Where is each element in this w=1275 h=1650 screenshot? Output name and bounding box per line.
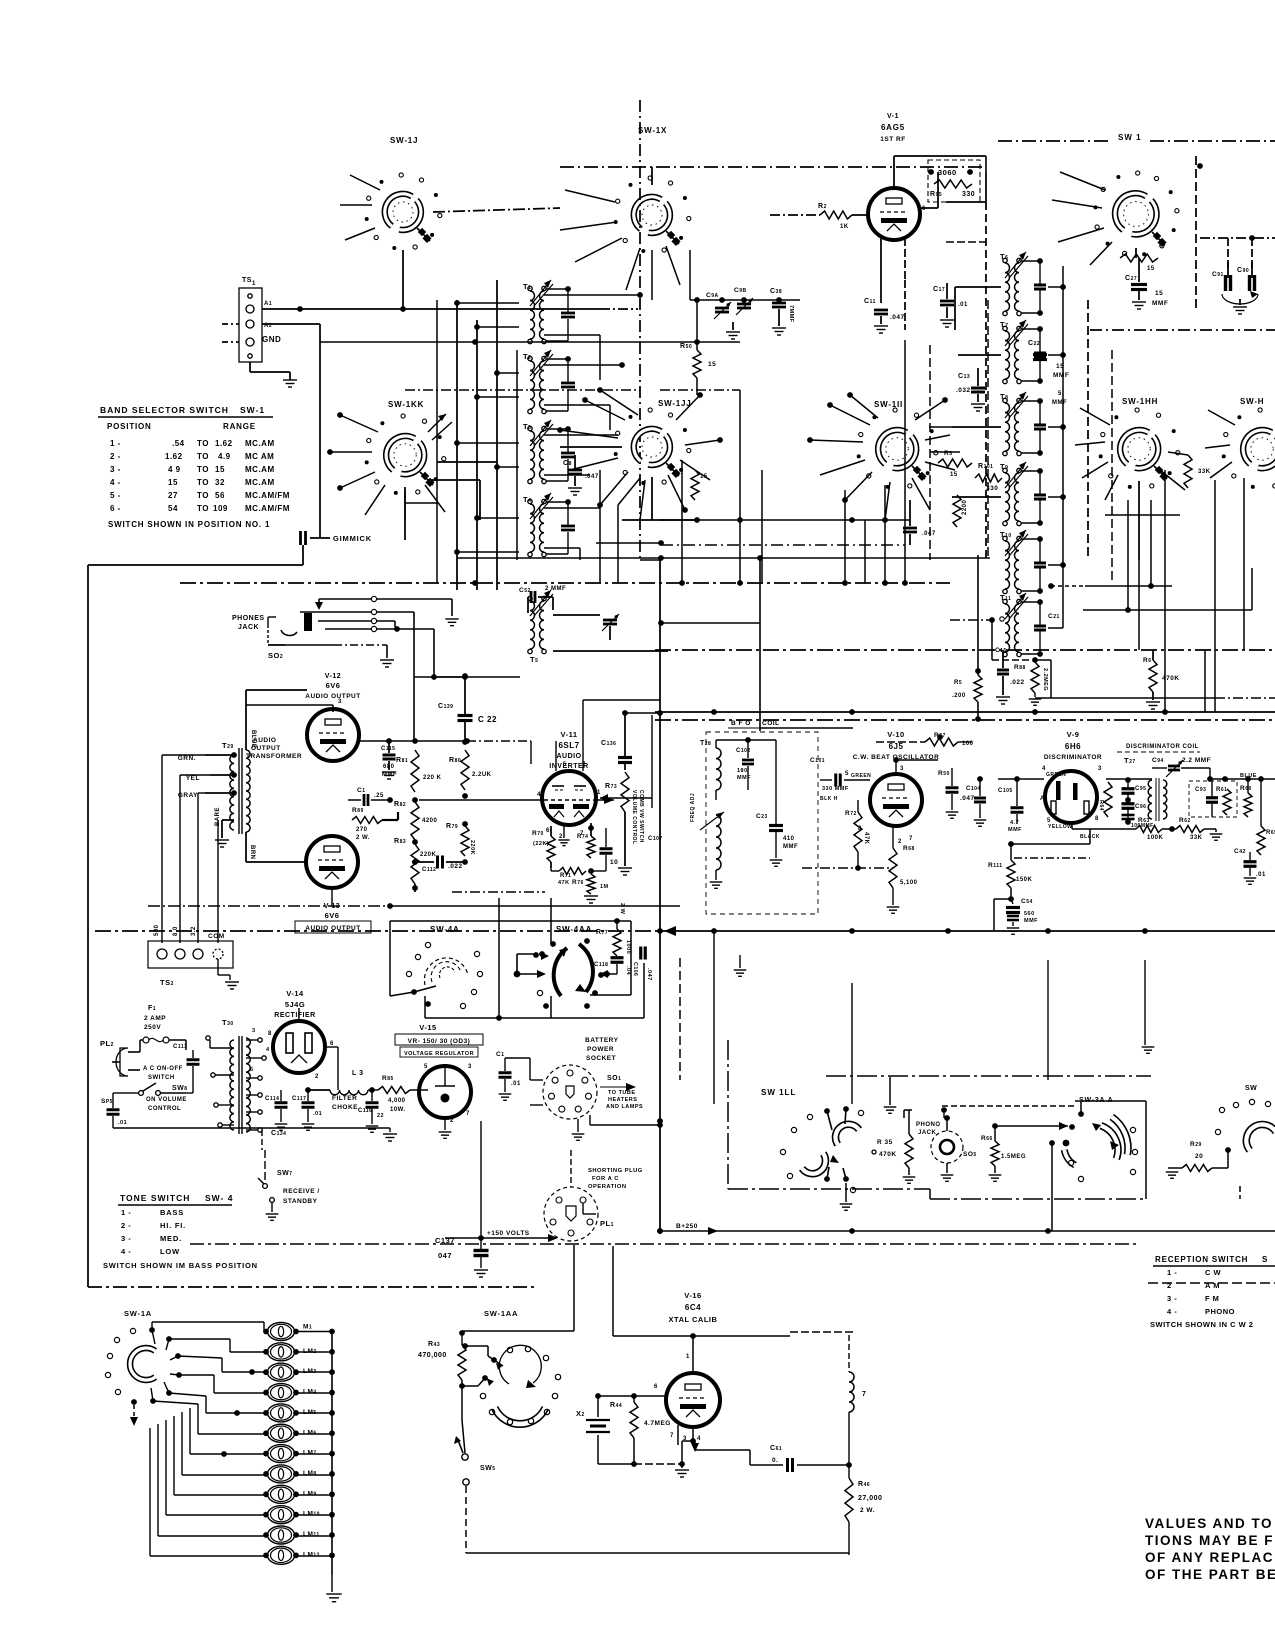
svg-text:AUDIO OUTPUT: AUDIO OUTPUT xyxy=(305,693,360,700)
svg-text:YELLOW: YELLOW xyxy=(1048,824,1072,830)
wire SW-1KK east2 xyxy=(428,480,480,520)
wire x760 vertical xyxy=(759,558,761,731)
wire SW-1JJ fan1 xyxy=(560,446,622,448)
wire T3 right stubs xyxy=(544,435,618,475)
label SW-1LL xyxy=(761,1088,796,1097)
lamp LM11 xyxy=(263,1526,299,1544)
wire A2 run xyxy=(319,342,321,538)
label SW-4A xyxy=(430,925,460,934)
capacitor C23 xyxy=(756,800,798,866)
wire y737 R67bus xyxy=(937,734,943,740)
capacitor tuning T6 xyxy=(1021,258,1046,316)
svg-text:R6: R6 xyxy=(1143,657,1151,664)
svg-text:TO: TO xyxy=(197,491,209,500)
svg-text:R82: R82 xyxy=(394,801,406,808)
capacitor tuning T11 xyxy=(1021,599,1046,657)
label YEL xyxy=(186,775,200,782)
wire TS1-A2 east xyxy=(262,324,320,342)
rotary switch SW-1A xyxy=(105,1327,182,1426)
tube V-11 6SL7 xyxy=(542,771,596,825)
svg-text:R 35: R 35 xyxy=(877,1139,893,1146)
wire SW7 up xyxy=(264,1150,266,1183)
svg-text:VOLTAGE REGULATOR: VOLTAGE REGULATOR xyxy=(404,1051,474,1057)
svg-text:TO: TO xyxy=(197,478,209,487)
svg-text:7: 7 xyxy=(670,1433,674,1439)
capacitor C134 xyxy=(262,1130,286,1150)
svg-text:C1: C1 xyxy=(357,787,365,794)
svg-text:LM7: LM7 xyxy=(303,1450,317,1457)
svg-text:AND LAMPS: AND LAMPS xyxy=(606,1104,643,1110)
svg-text:C15: C15 xyxy=(995,647,1007,654)
wire SW1 spokes xyxy=(1052,172,1112,265)
svg-text:2 -: 2 - xyxy=(110,452,121,461)
svg-text:LOW: LOW xyxy=(160,1247,180,1256)
svg-text:R62: R62 xyxy=(1179,817,1191,824)
svg-text:1.62: 1.62 xyxy=(215,439,233,448)
resistor R74 xyxy=(577,823,595,858)
svg-text:SWITCH SHOWN IN C W 2: SWITCH SHOWN IN C W 2 xyxy=(1150,1320,1253,1329)
label audio output transformer xyxy=(246,737,302,760)
switch SW-1LL arc1 xyxy=(807,1106,863,1144)
wire R50 stub xyxy=(694,297,700,395)
svg-text:270: 270 xyxy=(356,827,368,833)
svg-text:SW-1X: SW-1X xyxy=(638,126,667,135)
label SW-1 top xyxy=(1118,133,1142,142)
svg-text:BLK H: BLK H xyxy=(820,796,838,802)
svg-text:.047: .047 xyxy=(646,968,652,981)
transformer T7 xyxy=(1000,320,1028,384)
capacitor C116 xyxy=(358,1087,384,1132)
svg-text:C116: C116 xyxy=(358,1108,372,1114)
svg-text:C54: C54 xyxy=(1021,898,1033,905)
wire top mesh y340 xyxy=(262,341,320,343)
svg-text:GREEN: GREEN xyxy=(851,773,871,779)
svg-text:R5: R5 xyxy=(944,450,952,457)
svg-text:2: 2 xyxy=(898,839,902,845)
svg-text:7: 7 xyxy=(909,836,913,842)
wire V-15 bottom xyxy=(439,1118,452,1138)
capacitor C8 xyxy=(563,455,599,495)
wire R82 nodes xyxy=(412,793,468,892)
svg-text:1: 1 xyxy=(686,1354,690,1360)
svg-text:V-14: V-14 xyxy=(286,989,304,998)
rotary switch SW-1AA xyxy=(480,1345,560,1424)
svg-text:(22K): (22K) xyxy=(533,841,549,847)
svg-text:C139: C139 xyxy=(438,703,453,710)
ground jack bottom xyxy=(380,660,394,667)
wire y390 mid xyxy=(660,389,740,391)
wire T10 dot xyxy=(1048,583,1085,589)
svg-text:4200: 4200 xyxy=(422,818,438,824)
svg-text:100K: 100K xyxy=(1147,835,1164,841)
wire T column left bus xyxy=(987,300,989,560)
svg-text:C13: C13 xyxy=(958,373,970,380)
wire SWHH south xyxy=(1138,481,1140,650)
wire top mesh y390 xyxy=(405,389,640,391)
svg-text:7: 7 xyxy=(466,1111,470,1117)
svg-text:3060: 3060 xyxy=(938,168,957,177)
svg-text:C23: C23 xyxy=(756,813,768,820)
svg-text:PHONES: PHONES xyxy=(232,615,265,622)
svg-text:1 -: 1 - xyxy=(1167,1268,1177,1277)
wire x905 vertical xyxy=(904,340,906,583)
svg-text:2: 2 xyxy=(315,1074,319,1080)
transformer T1 xyxy=(523,280,553,344)
resistor R89 xyxy=(352,807,398,841)
node B+250 xyxy=(657,1223,718,1235)
svg-text:LM11: LM11 xyxy=(303,1531,320,1538)
T29 leads xyxy=(205,690,307,862)
capacitor C42 xyxy=(1234,848,1266,884)
resistor R63 xyxy=(1136,817,1175,841)
transformer T5 xyxy=(528,590,553,664)
label SW-1H xyxy=(1240,397,1264,406)
wire right dash x1112 xyxy=(1111,350,1113,583)
wire left of T6 xyxy=(955,287,1001,330)
label to tube heaters xyxy=(600,1083,643,1110)
wire top bus xtal xyxy=(462,1245,574,1349)
svg-text:330: 330 xyxy=(962,191,975,198)
svg-text:GRN.: GRN. xyxy=(178,755,196,762)
wire y1283 stub xyxy=(1148,1282,1275,1284)
svg-text:3 -: 3 - xyxy=(1167,1294,1177,1303)
capacitor tuning T4 xyxy=(546,499,575,554)
resistor R73 xyxy=(600,772,644,875)
capacitor gimmick xyxy=(301,531,331,545)
wire bus y650 xyxy=(655,649,1275,651)
svg-text:R85: R85 xyxy=(382,1075,394,1082)
svg-text:R72: R72 xyxy=(845,810,857,817)
capacitor C38 xyxy=(770,288,794,335)
tube V-15 VR150 xyxy=(419,1066,471,1118)
lamp LM7 xyxy=(263,1445,299,1463)
svg-text:TONE SWITCH: TONE SWITCH xyxy=(120,1193,190,1203)
wire bottom border xyxy=(88,1286,535,1288)
wire TS1-A1 east xyxy=(262,306,638,312)
resistor R80 xyxy=(449,750,492,790)
resistor R88 xyxy=(1014,657,1051,705)
svg-text:SW 1LL: SW 1LL xyxy=(761,1088,796,1097)
svg-text:C106: C106 xyxy=(632,962,638,976)
svg-text:R81: R81 xyxy=(396,757,408,764)
resistor R111 xyxy=(988,844,1033,902)
capacitor C139 C22 xyxy=(438,673,497,745)
svg-text:5J4G: 5J4G xyxy=(285,1000,305,1009)
rotary switch SW-4A xyxy=(390,942,483,1008)
ground V-11 pin2 xyxy=(558,826,569,846)
label V-9 xyxy=(1044,730,1102,761)
svg-text:SW-1: SW-1 xyxy=(240,405,265,415)
svg-text:C38: C38 xyxy=(770,288,782,295)
wire xtal loop bottom xyxy=(466,1522,849,1553)
svg-text:SW-4AA: SW-4AA xyxy=(556,925,592,934)
wire gimmick down xyxy=(302,545,304,565)
box C93 xyxy=(1189,781,1237,817)
svg-text:15: 15 xyxy=(950,472,958,478)
svg-text:TO TUBE: TO TUBE xyxy=(608,1090,636,1096)
capacitor tuning T8 xyxy=(1021,398,1046,456)
resistor R60 xyxy=(1240,776,1252,817)
svg-text:C96: C96 xyxy=(1135,804,1146,810)
svg-text:BRN: BRN xyxy=(249,845,255,860)
lamp LM12 xyxy=(263,1546,299,1564)
ground SW7 xyxy=(266,1214,279,1220)
resistor R44 xyxy=(610,1396,671,1464)
svg-text:MC.AM: MC.AM xyxy=(245,478,275,487)
svg-text:JACK: JACK xyxy=(238,624,259,631)
label LM5 xyxy=(303,1409,317,1416)
svg-text:R60: R60 xyxy=(1240,785,1252,792)
wire T1 left stubs xyxy=(457,303,519,552)
capacitor C114 xyxy=(265,1090,288,1130)
svg-text:.022: .022 xyxy=(1010,679,1025,686)
wire SW-1KK spokes xyxy=(327,412,445,520)
svg-text:3.2: 3.2 xyxy=(191,926,197,936)
wire PL1 up xyxy=(570,1150,572,1187)
svg-text:R2: R2 xyxy=(818,203,827,210)
svg-text:5 -: 5 - xyxy=(110,491,121,500)
label V-12 xyxy=(305,673,360,700)
coil L7 xyxy=(849,1335,866,1465)
capacitor C104 xyxy=(966,776,986,826)
wire y623 link xyxy=(658,620,760,626)
resistor R2 xyxy=(818,203,852,230)
label VR-150 box xyxy=(395,1034,483,1057)
resistor R79 xyxy=(446,823,475,856)
wire section box xyxy=(728,1040,1151,1199)
rotary switch SW-1 main xyxy=(1094,171,1180,256)
resistor R62 xyxy=(1172,817,1222,841)
svg-text:6: 6 xyxy=(922,206,926,212)
wire x618 vertical xyxy=(617,505,619,583)
transformer T6 xyxy=(1000,252,1028,316)
wire lamp right bus xyxy=(298,1329,335,1575)
svg-text:C17: C17 xyxy=(933,286,945,293)
svg-text:SW7: SW7 xyxy=(277,1170,293,1177)
svg-text:C107: C107 xyxy=(648,836,663,842)
capacitor C107 xyxy=(591,828,663,871)
tube V-9 6H6 xyxy=(1045,771,1097,823)
wire bus x477 xyxy=(476,320,478,590)
wire jack line 612 xyxy=(300,609,414,740)
svg-text:R111: R111 xyxy=(988,862,1003,869)
svg-text:B+250: B+250 xyxy=(676,1223,698,1230)
capacitor C101 xyxy=(810,757,871,792)
wire SW-1II spokes xyxy=(807,402,955,523)
svg-text:GREEN: GREEN xyxy=(1046,772,1066,778)
svg-text:M1: M1 xyxy=(303,1324,312,1331)
tube V-16 6C4 xyxy=(666,1373,720,1427)
label T30 xyxy=(222,1018,234,1027)
svg-text:F M: F M xyxy=(1205,1294,1219,1303)
svg-text:33K: 33K xyxy=(1198,469,1211,475)
svg-text:GIMMICK: GIMMICK xyxy=(333,534,372,543)
wire V-9 left xyxy=(998,778,1044,780)
svg-text:SW-1KK: SW-1KK xyxy=(388,400,424,409)
wire y560 bridging xyxy=(640,559,660,561)
wire x1048 vertical xyxy=(1047,960,1049,1080)
wire x1205 vertical xyxy=(1204,650,1206,712)
capacitor C113 xyxy=(173,1044,200,1078)
label M1 xyxy=(303,1324,312,1331)
rotary switch SW-1HH xyxy=(1099,408,1180,489)
label LM8 xyxy=(303,1470,317,1477)
svg-text:SW-1A: SW-1A xyxy=(124,1309,152,1318)
switch SW8 xyxy=(128,1066,188,1095)
svg-text:LM9: LM9 xyxy=(303,1490,317,1497)
transformer T9 xyxy=(1000,462,1028,526)
svg-text:LM12: LM12 xyxy=(303,1551,320,1558)
svg-text:27: 27 xyxy=(168,491,178,500)
wire phono bus2 xyxy=(996,1122,1068,1130)
wire y490 right xyxy=(990,489,1063,491)
svg-text:MMF: MMF xyxy=(1052,400,1067,406)
svg-text:L 3: L 3 xyxy=(352,1070,364,1077)
svg-text:.047: .047 xyxy=(960,795,975,802)
resistor R65 xyxy=(1257,776,1275,855)
svg-text:.032: .032 xyxy=(956,387,971,394)
svg-text:3: 3 xyxy=(1098,766,1102,772)
svg-text:4 -: 4 - xyxy=(1167,1307,1177,1316)
wire SW-1JJ fan2 xyxy=(622,477,695,520)
svg-text:SO5: SO5 xyxy=(963,1151,977,1158)
ground C9 xyxy=(726,332,740,339)
svg-text:C104: C104 xyxy=(966,786,981,792)
svg-text:A C ON-OFF: A C ON-OFF xyxy=(143,1066,183,1072)
svg-text:4: 4 xyxy=(266,1047,270,1053)
resistor R81 xyxy=(396,750,442,792)
svg-text:MED.: MED. xyxy=(160,1234,182,1243)
wire y610 seg xyxy=(1083,500,1252,613)
svg-text:.01: .01 xyxy=(118,1120,127,1126)
terminal strip TS2 xyxy=(148,924,233,987)
svg-text:LM8: LM8 xyxy=(303,1470,317,1477)
svg-text:SW-1JJ: SW-1JJ xyxy=(658,399,692,408)
wire x885 vertical xyxy=(884,485,886,583)
svg-text:250V: 250V xyxy=(144,1024,161,1031)
resistor R67 xyxy=(896,732,974,747)
svg-text:1.5MEG: 1.5MEG xyxy=(1001,1154,1026,1160)
svg-text:SHORTING PLUG: SHORTING PLUG xyxy=(588,1168,643,1174)
tube V-10 6J5 xyxy=(870,774,922,826)
resistor below SW-1JJ xyxy=(691,470,708,500)
lamp LM1 xyxy=(263,1323,299,1341)
svg-text:4.7: 4.7 xyxy=(1010,820,1019,826)
capacitor C1r xyxy=(496,1051,521,1100)
label audio output box xyxy=(295,921,371,933)
wire left of T8 xyxy=(952,426,1001,428)
wire dashed phono bus xyxy=(941,1106,1075,1121)
svg-text:R79: R79 xyxy=(446,823,458,830)
svg-text:.047: .047 xyxy=(890,314,905,321)
svg-text:V-12: V-12 xyxy=(325,673,341,680)
wire V-14 top xyxy=(298,1008,300,1021)
svg-text:FOR A C: FOR A C xyxy=(592,1176,619,1182)
svg-text:C8: C8 xyxy=(563,460,572,467)
svg-text:4.9: 4.9 xyxy=(218,452,231,461)
wire arrow y931 xyxy=(664,926,680,1080)
resistor R6 470K xyxy=(1143,650,1180,709)
label 5MMF xyxy=(1052,391,1067,406)
wire SW-1JJ spokes xyxy=(557,397,710,520)
svg-text:SW-1AA: SW-1AA xyxy=(484,1309,518,1318)
wire SW-1LL lever down xyxy=(840,1183,853,1210)
svg-text:C118: C118 xyxy=(594,962,608,968)
label GRN xyxy=(178,755,196,762)
capacitor C106 xyxy=(632,947,652,981)
svg-text:3: 3 xyxy=(252,1028,256,1034)
svg-text:LM4: LM4 xyxy=(303,1389,317,1396)
wire SW-1J spokes xyxy=(340,175,380,240)
capacitor near SW-1II xyxy=(903,500,936,545)
svg-text:MC.AM/FM: MC.AM/FM xyxy=(245,504,290,513)
transformer T3 xyxy=(523,420,553,484)
switch SW-1LL arc2 xyxy=(780,1127,855,1192)
svg-text:HI. FI.: HI. FI. xyxy=(160,1221,186,1230)
svg-text:C W: C W xyxy=(1205,1268,1222,1277)
svg-text:C117: C117 xyxy=(292,1096,306,1102)
wire SW-1X west spokes xyxy=(560,190,622,262)
svg-text:7MMF: 7MMF xyxy=(788,305,794,323)
svg-text:C52: C52 xyxy=(519,587,531,594)
wire x517 vertical xyxy=(516,350,518,560)
wire socket bottom right xyxy=(590,1115,663,1128)
svg-text:1ST RF: 1ST RF xyxy=(880,136,905,143)
wire plate bus up xyxy=(414,674,520,680)
wire V-10 plate xyxy=(893,757,938,774)
svg-text:470K: 470K xyxy=(879,1151,897,1158)
label receive standby xyxy=(283,1188,320,1205)
svg-text:15: 15 xyxy=(168,478,178,487)
ground socket xyxy=(572,1119,585,1140)
wire SW-1HH cross xyxy=(1105,481,1180,560)
capacitor stack C95 C96 xyxy=(1122,777,1154,829)
svg-text:MC.AM: MC.AM xyxy=(245,439,275,448)
svg-text:2 MMF: 2 MMF xyxy=(545,586,566,592)
svg-text:32: 32 xyxy=(215,478,225,487)
transformer T30 xyxy=(230,1036,250,1134)
svg-text:R46: R46 xyxy=(858,1481,870,1488)
wire A1 vertical to SW-1J xyxy=(400,250,406,312)
lamp LM2 xyxy=(263,1343,299,1361)
svg-text:R70: R70 xyxy=(532,830,544,837)
svg-text:BATTERY: BATTERY xyxy=(585,1037,619,1044)
svg-text:4 9: 4 9 xyxy=(168,465,181,474)
svg-text:OPERATION: OPERATION xyxy=(588,1184,627,1190)
wire y586 seg xyxy=(1085,500,1172,589)
svg-text:47K: 47K xyxy=(863,832,869,845)
resistor R61 xyxy=(1216,787,1231,815)
terminal strip TS1 xyxy=(239,277,262,362)
capacitor C17 xyxy=(933,283,968,327)
svg-text:2.2 MMF: 2.2 MMF xyxy=(1182,757,1211,764)
svg-text:56: 56 xyxy=(215,491,225,500)
svg-text:2 W.: 2 W. xyxy=(860,1507,875,1514)
svg-text:C11: C11 xyxy=(864,298,876,305)
V-10 pins xyxy=(845,766,913,845)
resistor 33K xyxy=(1184,455,1211,488)
ground PS xyxy=(186,1078,397,1141)
resistor R75 200 xyxy=(952,555,982,722)
svg-text:220K: 220K xyxy=(469,840,475,855)
capacitor C9A C9B xyxy=(706,287,753,330)
wire SW-1KK south xyxy=(404,487,406,540)
wire x740 vertical xyxy=(737,390,743,583)
svg-text:2.2UK: 2.2UK xyxy=(472,772,492,778)
wire V-16 top xyxy=(613,1246,696,1373)
wire V-12 plate bus xyxy=(357,738,531,744)
svg-text:.54: .54 xyxy=(172,439,185,448)
